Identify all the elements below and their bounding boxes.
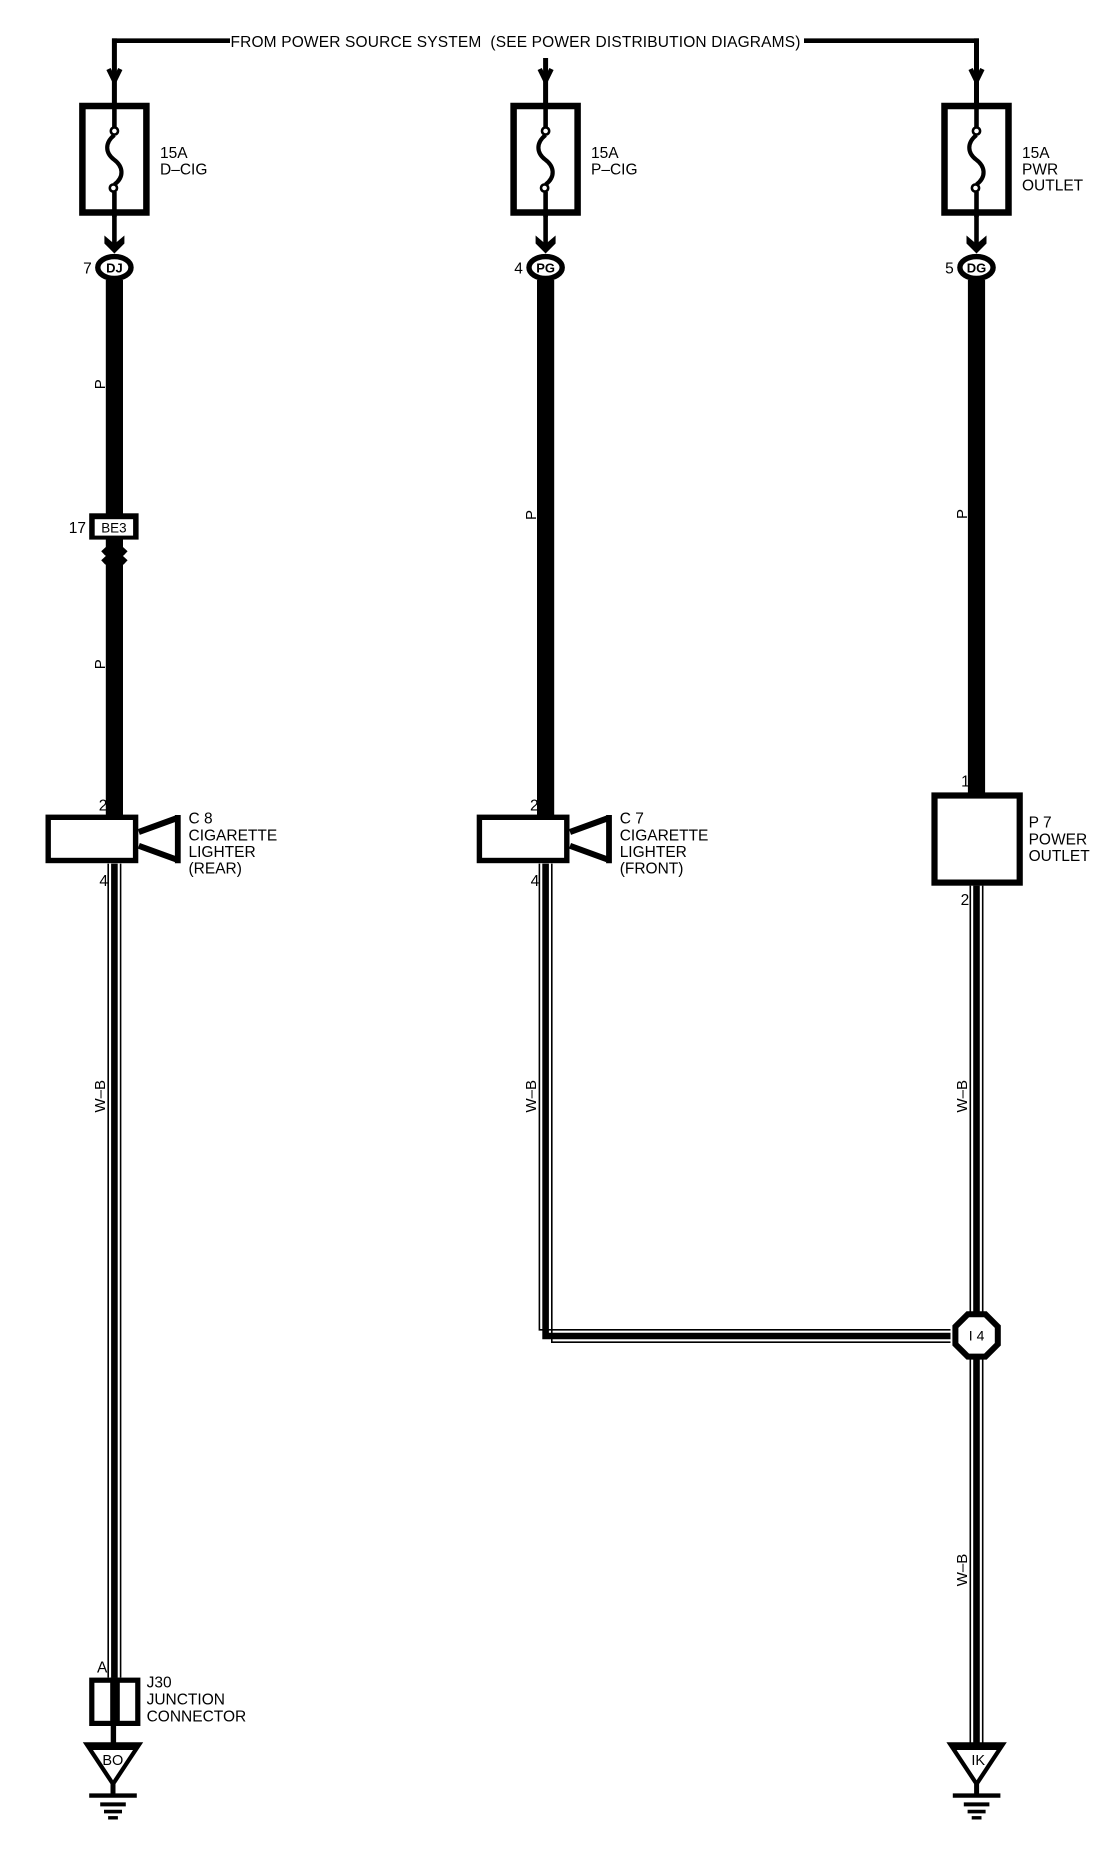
svg-text:POWER: POWER	[1029, 831, 1088, 848]
arrow	[971, 69, 983, 81]
svg-text:OUTLET: OUTLET	[1022, 178, 1084, 195]
svg-text:4: 4	[514, 261, 523, 278]
fuse PWR OUTLET box	[945, 106, 1009, 213]
wire P (right)	[968, 280, 985, 796]
svg-text:LIGHTER: LIGHTER	[189, 844, 256, 861]
svg-text:P: P	[92, 379, 109, 389]
wire	[543, 214, 548, 245]
component P7 box	[935, 796, 1020, 883]
svg-text:P: P	[92, 659, 109, 669]
node FROM POWER SOURCE SYSTEM label	[230, 31, 804, 52]
svg-text:W–B: W–B	[954, 1554, 971, 1587]
wire	[112, 214, 117, 245]
svg-text:C 8: C 8	[189, 811, 213, 828]
wire P (left, lower)	[106, 539, 123, 817]
svg-text:OUTLET: OUTLET	[1029, 848, 1091, 865]
wire W-B (right, upper)	[969, 886, 971, 1313]
wire W-B (left)	[107, 864, 109, 1678]
connector PG	[529, 257, 562, 279]
wire	[974, 214, 979, 245]
wire middle drop	[543, 58, 548, 106]
svg-text:DG: DG	[967, 260, 987, 275]
svg-text:CONNECTOR: CONNECTOR	[147, 1708, 247, 1725]
svg-text:15A: 15A	[591, 145, 619, 162]
wire right drop	[974, 38, 979, 106]
svg-text:DJ: DJ	[106, 260, 123, 275]
junction connector J30	[92, 1680, 138, 1723]
svg-text:7: 7	[83, 261, 92, 278]
svg-text:W–B: W–B	[954, 1080, 971, 1113]
fuse P-CIG box	[514, 106, 578, 213]
junction I 4	[955, 1314, 997, 1356]
component C8 heater element	[139, 819, 176, 833]
svg-text:P: P	[523, 510, 540, 520]
svg-text:PWR: PWR	[1022, 161, 1058, 178]
arrow into connector	[536, 236, 556, 254]
ground IK	[946, 1742, 1006, 1788]
wire	[111, 1726, 116, 1746]
svg-text:P–CIG: P–CIG	[591, 161, 638, 178]
svg-text:(FRONT): (FRONT)	[620, 861, 684, 878]
svg-text:JUNCTION: JUNCTION	[147, 1691, 225, 1708]
svg-text:I 4: I 4	[969, 1328, 985, 1344]
svg-text:4: 4	[99, 873, 108, 890]
arrow into connector	[967, 236, 987, 254]
fuse D-CIG box	[82, 106, 146, 213]
svg-text:2: 2	[961, 892, 970, 909]
fuse D-CIG element	[112, 104, 117, 127]
svg-text:15A: 15A	[160, 145, 188, 162]
fuse PWR OUTLET element	[974, 104, 979, 127]
svg-text:A: A	[97, 1660, 108, 1677]
component C8 box	[48, 817, 135, 860]
svg-text:(REAR): (REAR)	[189, 861, 242, 878]
arrow into connector	[104, 236, 124, 254]
svg-text:CIGARETTE: CIGARETTE	[189, 827, 278, 844]
arrow double chevron	[103, 543, 125, 553]
svg-text:1: 1	[961, 774, 970, 791]
fuse P-CIG element	[543, 104, 548, 127]
svg-text:FROM POWER SOURCE SYSTEM (SEE: FROM POWER SOURCE SYSTEM (SEE POWER DIST…	[230, 34, 800, 51]
svg-text:4: 4	[531, 873, 540, 890]
svg-text:P 7: P 7	[1029, 815, 1052, 832]
wire left drop	[112, 38, 117, 106]
wire power source bus	[112, 38, 979, 43]
svg-text:C 7: C 7	[620, 811, 644, 828]
connector BE3	[89, 513, 138, 539]
svg-text:2: 2	[99, 798, 108, 815]
arrow	[109, 69, 121, 81]
svg-text:P: P	[954, 509, 971, 519]
svg-text:15A: 15A	[1022, 145, 1050, 162]
connector DJ	[98, 257, 131, 279]
arrow	[540, 69, 552, 81]
svg-text:LIGHTER: LIGHTER	[620, 844, 687, 861]
component C7 heater element	[570, 819, 607, 833]
svg-text:J30: J30	[147, 1674, 172, 1691]
svg-text:BO: BO	[102, 1753, 123, 1769]
wire P (middle)	[537, 280, 554, 816]
component C7 box	[479, 817, 566, 860]
svg-text:BE3: BE3	[101, 520, 126, 535]
svg-text:D–CIG: D–CIG	[160, 161, 207, 178]
connector DG	[960, 257, 993, 279]
wire W-B (middle, to junction I4)	[539, 864, 950, 1330]
svg-text:W–B: W–B	[92, 1080, 109, 1113]
svg-text:17: 17	[69, 520, 86, 537]
ground BO	[83, 1742, 143, 1788]
wire P (left, upper)	[106, 280, 123, 514]
wire W-B (right, lower)	[969, 1358, 971, 1745]
svg-text:5: 5	[945, 261, 954, 278]
svg-text:CIGARETTE: CIGARETTE	[620, 827, 709, 844]
svg-text:W–B: W–B	[523, 1080, 540, 1113]
svg-text:2: 2	[530, 798, 539, 815]
svg-text:IK: IK	[971, 1753, 985, 1769]
svg-text:PG: PG	[536, 260, 555, 275]
